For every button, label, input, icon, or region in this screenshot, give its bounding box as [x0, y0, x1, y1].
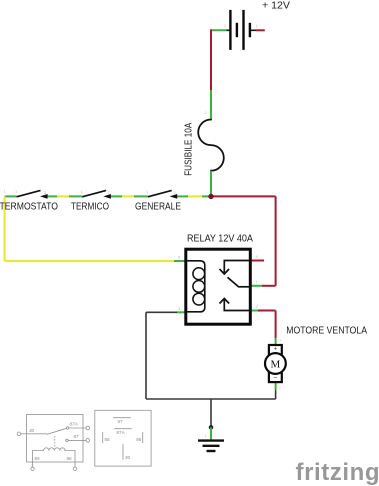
svg-text:−: − [273, 375, 277, 382]
svg-text:86: 86 [136, 437, 142, 442]
svg-text:M: M [271, 358, 281, 370]
svg-text:GENERALE: GENERALE [135, 201, 181, 212]
svg-text:FUSIBILE 10A: FUSIBILE 10A [183, 122, 194, 176]
svg-text:85: 85 [105, 437, 111, 442]
svg-text:87: 87 [74, 434, 80, 439]
svg-text:87: 87 [118, 419, 124, 424]
svg-text:MOTORE VENTOLA: MOTORE VENTOLA [286, 325, 367, 337]
svg-text:+ 12V: + 12V [262, 1, 290, 12]
svg-text:TERMICO: TERMICO [71, 201, 109, 212]
svg-text:85: 85 [35, 456, 41, 461]
svg-text:30: 30 [29, 428, 35, 433]
svg-text:TERMOSTATO: TERMOSTATO [0, 201, 58, 213]
svg-text:fritzing: fritzing [296, 459, 379, 486]
svg-text:87A: 87A [70, 421, 78, 426]
svg-text:RELAY 12V 40A: RELAY 12V 40A [187, 233, 253, 245]
svg-text:87A: 87A [117, 430, 126, 435]
svg-text:+: + [273, 346, 277, 352]
svg-text:30: 30 [125, 455, 131, 460]
svg-text:86: 86 [67, 456, 73, 461]
